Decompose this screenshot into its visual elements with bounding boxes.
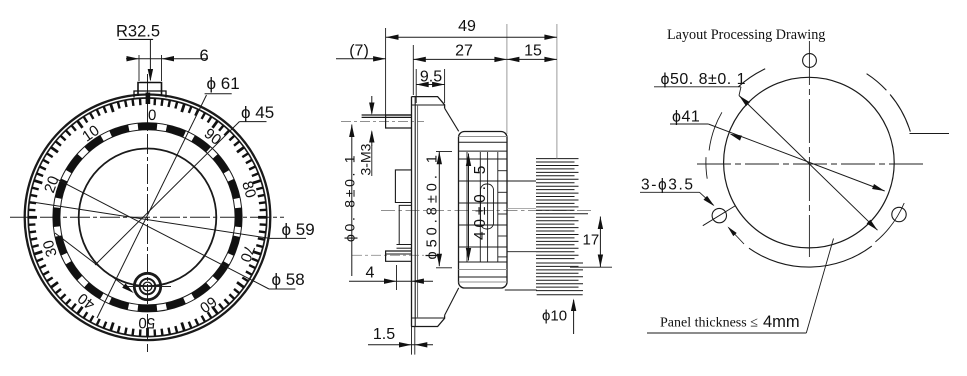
- dash band inner circle: [60, 130, 235, 305]
- arrowhead phi41 lower-right: [872, 184, 885, 191]
- svg-text:Panel thickness ≤: Panel thickness ≤: [660, 316, 758, 331]
- arrowhead phi41 upper-left: [729, 134, 742, 141]
- underline phi58: [269, 288, 295, 290]
- left view: handwheel front view group: [10, 23, 315, 353]
- dimension chord phi50.8 right view: [739, 96, 878, 231]
- leader line phi45: [95, 122, 239, 265]
- encoder body top ribs: [459, 136, 508, 138]
- handwheel 100-division tick marks: [28, 98, 267, 336]
- leader line phi59: [31, 202, 271, 239]
- dial hub bore top line: [436, 151, 452, 153]
- arrowhead 3-M3 up: [371, 132, 373, 147]
- dimension line 6: [126, 58, 208, 60]
- shaft boss upper: [395, 170, 411, 203]
- encoder body bottom ribs: [459, 261, 508, 263]
- arrowheads 49: [386, 35, 399, 40]
- encoder body grid horizontals: [459, 158, 508, 160]
- svg-text:ϕ50. 8±0. 1: ϕ50. 8±0. 1: [661, 71, 747, 88]
- dial back cone top: [445, 108, 459, 131]
- flange plate right edge: [414, 97, 416, 327]
- wire: vertical centerline of handwheel: [147, 74, 149, 352]
- arrowhead 3-M3 down: [371, 96, 373, 114]
- panel cutout circle phi50.8: [724, 77, 895, 248]
- arrowheads 27: [413, 57, 426, 62]
- svg-text:ϕ 61: ϕ 61: [207, 74, 240, 93]
- bottom stud body: [386, 251, 412, 261]
- svg-text:1.5: 1.5: [373, 326, 395, 343]
- dimension line 15: [507, 58, 557, 60]
- arrowhead phi50.8 lower-right: [867, 220, 878, 231]
- leader line phi58: [56, 179, 269, 289]
- extension line left of 6: [138, 55, 140, 81]
- bolt circle fragment left: [706, 157, 707, 179]
- dashed wheel silhouette arc upper-left: [738, 69, 765, 87]
- arrowhead 6 left: [127, 56, 140, 61]
- dimension line 4: [349, 280, 433, 282]
- cable strain-relief fins upper: [536, 158, 579, 160]
- leader line phi61: [97, 95, 207, 318]
- svg-text:40±0. 5: 40±0. 5: [472, 162, 489, 240]
- mounting hole top: [803, 54, 817, 68]
- svg-text:R32.5: R32.5: [116, 23, 160, 41]
- extension line 27/15: [506, 24, 508, 134]
- wire: vertical centerline right view: [808, 41, 810, 257]
- dimple crosshair horizontal: [124, 286, 171, 288]
- svg-text:3-ϕ3.5: 3-ϕ3.5: [641, 177, 695, 194]
- extension line 9.5-right: [444, 69, 446, 103]
- svg-text:3-M3: 3-M3: [358, 143, 374, 175]
- dimension line 1.5: [368, 344, 433, 346]
- extension lines 4: [396, 265, 398, 290]
- dimple boss circle: [134, 273, 160, 299]
- arrowheads 1.5: [399, 342, 412, 347]
- svg-text:ϕ41: ϕ41: [672, 109, 700, 126]
- arrowhead 6 right: [162, 56, 175, 61]
- underline phi61: [205, 93, 232, 95]
- thick dash ring phi58 (grip dashes): [47, 117, 247, 317]
- encoder body grid verticals: [466, 152, 468, 262]
- dashed wheel silhouette arc bottom C: [749, 246, 872, 267]
- dial back cone bottom: [445, 288, 459, 315]
- index tab flange: [134, 91, 166, 98]
- svg-text:Layout Processing Drawing: Layout Processing Drawing: [667, 27, 825, 43]
- underline 3-phi3.5: [640, 191, 700, 193]
- index pointer mark: [146, 93, 151, 105]
- dial hub bore bottom line: [436, 267, 452, 269]
- shaft boss lower: [399, 205, 411, 244]
- dimension line phi41: [708, 124, 884, 191]
- arrowhead (7): [373, 56, 386, 61]
- svg-text:6: 6: [200, 47, 209, 65]
- flange plate left edge: [411, 97, 413, 327]
- leader panel thickness: [806, 239, 833, 334]
- arrowheads 40: [466, 154, 471, 167]
- arrowheads 9.5: [416, 82, 429, 87]
- dimension line phi0.8: [351, 125, 353, 277]
- handwheel outer rim circle R32.5: [25, 95, 271, 341]
- bottom stud upper lines: [397, 244, 412, 246]
- arrowheads 17: [598, 217, 603, 230]
- arrowhead phi0.8: [349, 125, 354, 138]
- wire: horizontal centerline of handwheel: [10, 216, 284, 218]
- wire: bottom stud centerline: [352, 254, 424, 256]
- svg-text:4mm: 4mm: [763, 313, 800, 331]
- middle view: side section group: [336, 18, 612, 355]
- dial numbers 0-90: [40, 107, 259, 331]
- leader elbow phi50.8: [739, 87, 741, 96]
- dash band outer circle phi59: [53, 123, 242, 312]
- dimension line 40: [468, 154, 470, 261]
- extension line 27-left: [412, 45, 414, 95]
- top stud body: [386, 115, 412, 128]
- svg-text:9.5: 9.5: [420, 69, 442, 86]
- handwheel tick-ring circle phi61: [28, 98, 267, 337]
- mounting hole lower-right: [892, 207, 906, 221]
- dashed wheel silhouette arc right B: [890, 95, 910, 132]
- arrowheads 4: [384, 279, 397, 284]
- dial rim top strip: [412, 97, 445, 109]
- finger dimple outer circle: [140, 279, 156, 295]
- dimension line 27: [413, 58, 507, 60]
- svg-text:17: 17: [583, 232, 600, 249]
- svg-text:(7): (7): [349, 43, 369, 60]
- arrowhead phi50.8 upper-left: [739, 96, 750, 107]
- dial rim bottom strip: [412, 315, 445, 326]
- svg-text:0: 0: [148, 107, 157, 124]
- leader arrow at lower-left hole: [729, 228, 745, 245]
- top stud M3 washer lines: [362, 114, 412, 116]
- svg-text:ϕ10: ϕ10: [542, 308, 567, 325]
- cable neck lines: [507, 180, 536, 182]
- svg-text:50: 50: [138, 314, 155, 331]
- encoder body center pill: [481, 184, 494, 229]
- dimension line 49: [386, 36, 557, 38]
- body-to-cable bottom line: [505, 289, 537, 291]
- underline phi50.8 right: [654, 86, 741, 88]
- dimension line 17: [599, 217, 601, 268]
- underline phi59: [270, 237, 306, 239]
- svg-text:49: 49: [458, 18, 476, 35]
- svg-text:27: 27: [455, 43, 473, 60]
- svg-text:ϕ 45: ϕ 45: [241, 103, 274, 122]
- svg-text:4: 4: [366, 265, 375, 282]
- wire: main horizontal centerline of side view: [381, 210, 594, 212]
- svg-text:ϕ50.8±0. 1: ϕ50.8±0. 1: [425, 151, 441, 260]
- extension line 49-left / stud face: [385, 28, 387, 115]
- underline panel thickness: [647, 332, 806, 334]
- index tab upper block: [138, 83, 162, 97]
- extension line 49/15-right: [556, 24, 558, 159]
- finger dimple inner circle: [143, 282, 152, 291]
- arrowhead dimple boss leader: [122, 283, 134, 293]
- underline phi45: [239, 121, 266, 123]
- extension line 9.5-left: [415, 69, 417, 103]
- radial slash through lower-left hole: [703, 206, 736, 226]
- wire: top stud centerline: [341, 121, 424, 123]
- dimension line (7): [336, 58, 386, 60]
- panel edge flat line top-right: [910, 133, 950, 135]
- svg-text:ϕ0. 8±0. 1: ϕ0. 8±0. 1: [342, 153, 358, 242]
- encoder body outline phi50.8: [459, 132, 508, 289]
- leader to dimple boss: [55, 233, 132, 291]
- mounting hole lower-left: [712, 208, 726, 222]
- svg-text:15: 15: [524, 43, 542, 60]
- extension lines 1.5: [411, 327, 413, 355]
- extension line 17 bottom: [570, 266, 612, 268]
- wire: horizontal centerline right view: [697, 163, 925, 165]
- underline R32.5: [119, 38, 153, 40]
- dimension line 9.5: [416, 84, 444, 86]
- svg-text:ϕ 58: ϕ 58: [272, 270, 305, 289]
- leader arrow phi10: [573, 300, 575, 334]
- underline phi41: [670, 123, 708, 125]
- dashed wheel silhouette arc upper-right A: [867, 74, 887, 91]
- leader 3-phi3.5: [700, 192, 714, 205]
- arrowheads 15: [507, 57, 520, 62]
- dial front face line: [417, 105, 419, 318]
- bolt circle fragment at lower-right hole: [875, 203, 904, 242]
- svg-text:ϕ 59: ϕ 59: [282, 220, 315, 239]
- bolt circle fragment upper-left: [709, 112, 722, 150]
- extension line right of 6: [161, 55, 163, 81]
- inner dial circle phi45: [79, 149, 217, 287]
- dimension line phi50.8 side: [438, 152, 440, 266]
- cable strain-relief fins lower phi10: [536, 262, 583, 264]
- arrowheads phi50.8 side: [437, 152, 442, 165]
- arrowhead R32.5: [148, 69, 153, 82]
- right view: layout processing drawing group: [640, 27, 949, 333]
- leader line R32.5: [149, 39, 151, 80]
